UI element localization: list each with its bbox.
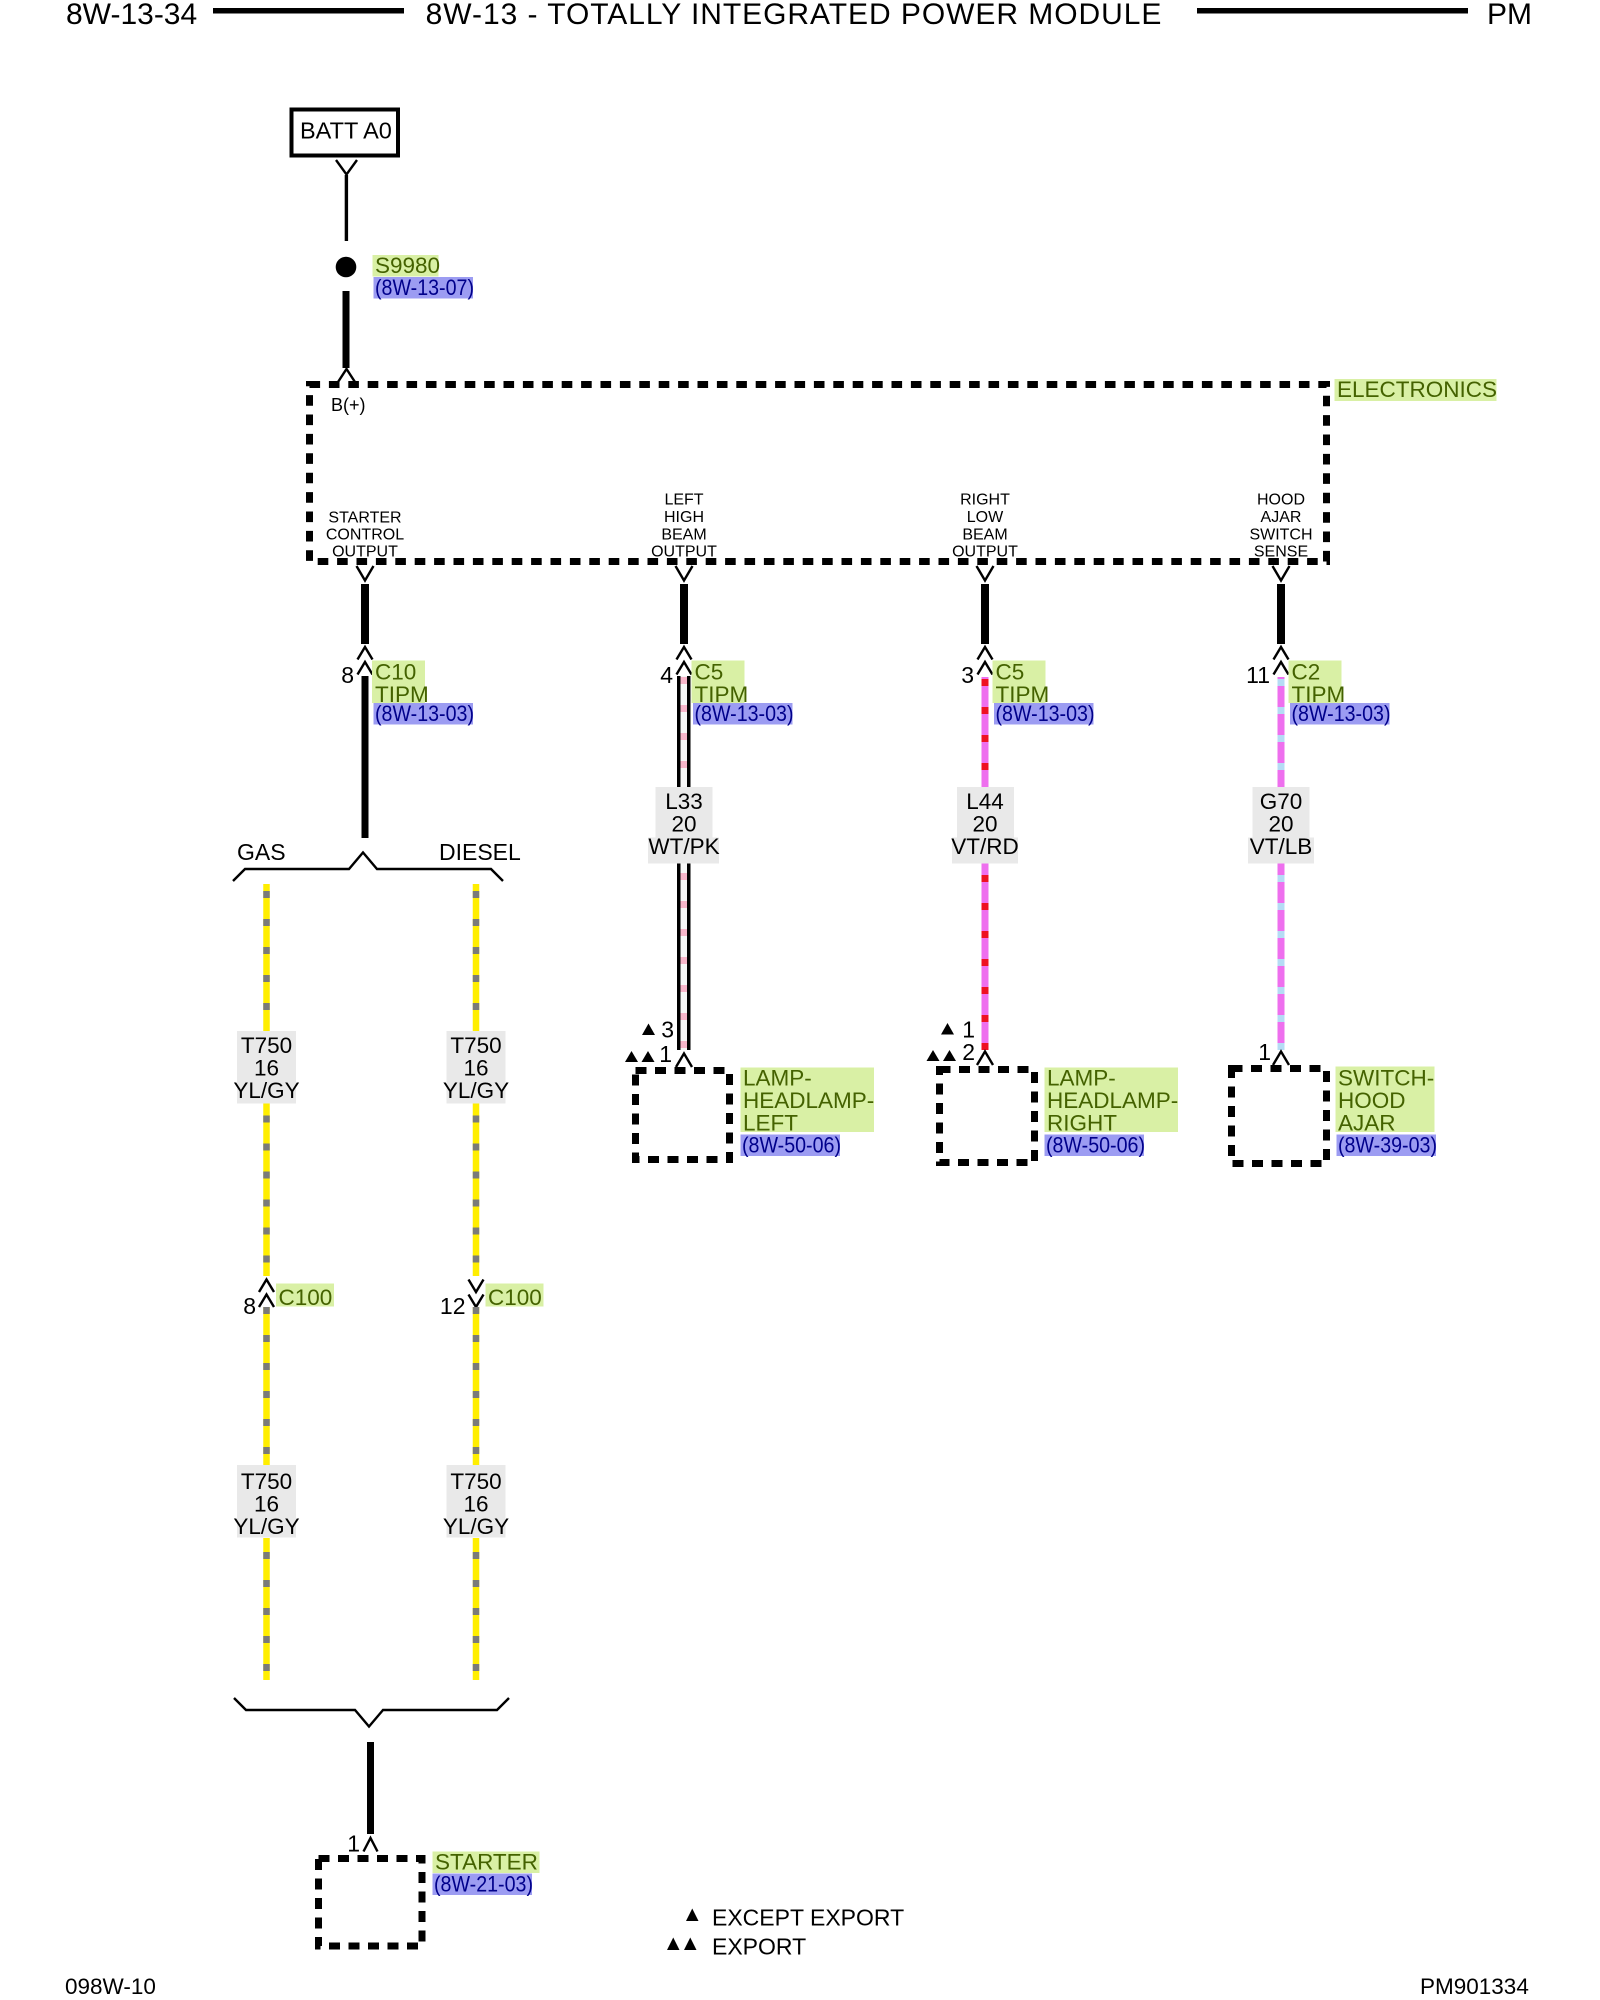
connector arrow below BATT A0: [336, 160, 357, 175]
svg-text:T750: T750: [450, 1033, 501, 1058]
svg-text:ELECTRONICS: ELECTRONICS: [1337, 377, 1497, 402]
label T750 16 YL/GY gas lower: [237, 1465, 296, 1538]
label C2 TIPM: [1289, 661, 1342, 704]
svg-text:OUTPUT: OUTPUT: [952, 544, 1018, 561]
legend export triangles: [667, 1938, 680, 1951]
wire L33 WT/PK white core: [681, 676, 688, 1050]
connector arrow hood ajar switch: [1273, 1052, 1289, 1066]
battery feed box BATT A0: [292, 110, 399, 156]
svg-text:T750: T750: [241, 1033, 292, 1058]
svg-text:HOOD: HOOD: [1257, 492, 1305, 509]
wire C100 diesel to lower label: [473, 1307, 480, 1465]
label C100 gas: [276, 1284, 334, 1307]
svg-text:(8W-13-03): (8W-13-03): [695, 701, 794, 726]
svg-text:SWITCH-: SWITCH-: [1338, 1066, 1434, 1091]
svg-text:(8W-13-07): (8W-13-07): [375, 275, 474, 300]
svg-text:VT/RD: VT/RD: [951, 834, 1019, 859]
svg-text:16: 16: [254, 1056, 279, 1081]
svg-text:8: 8: [341, 662, 354, 688]
svg-text:C10: C10: [375, 660, 416, 685]
label T750 16 YL/GY diesel upper: [447, 1031, 506, 1104]
wire C100 gas to lower label: [263, 1307, 270, 1465]
output arrow STARTER CONTROL: [357, 566, 374, 581]
svg-text:16: 16: [463, 1056, 488, 1081]
wire G70 VT/LB violet base: [1278, 677, 1285, 1050]
split brace gas/diesel: [233, 853, 503, 882]
svg-text:8: 8: [243, 1293, 256, 1319]
label (8W-13-03) C2: [1290, 703, 1390, 725]
svg-text:PM901334: PM901334: [1420, 1974, 1529, 1999]
svg-text:(8W-13-03): (8W-13-03): [1292, 701, 1391, 726]
svg-text:1: 1: [347, 1831, 360, 1857]
svg-text:LEFT: LEFT: [664, 492, 703, 509]
svg-text:(8W-39-03): (8W-39-03): [1338, 1133, 1437, 1158]
svg-text:WT/PK: WT/PK: [648, 834, 719, 859]
label (8W-50-06) lamp right: [1045, 1135, 1145, 1157]
svg-text:GAS: GAS: [237, 839, 286, 865]
svg-text:STARTER: STARTER: [328, 510, 401, 527]
connector C5 right double chevron: [978, 647, 993, 660]
splice S9980: [336, 257, 357, 278]
svg-text:3: 3: [961, 662, 974, 688]
label STARTER: [433, 1852, 540, 1874]
svg-text:C100: C100: [279, 1285, 333, 1310]
connector arrow starter pin 1: [364, 1838, 378, 1852]
svg-text:BEAM: BEAM: [661, 527, 706, 544]
header left rule: [213, 8, 404, 14]
label S9980: [373, 255, 439, 277]
svg-text:16: 16: [254, 1492, 279, 1517]
svg-text:098W-10: 098W-10: [65, 1974, 156, 1999]
label (8W-13-03) C10: [374, 703, 474, 725]
header right rule: [1197, 8, 1468, 14]
svg-text:2: 2: [962, 1039, 975, 1065]
svg-text:C2: C2: [1292, 660, 1321, 685]
label ELECTRONICS: [1335, 379, 1497, 401]
svg-text:16: 16: [463, 1492, 488, 1517]
component box LAMP-HEADLAMP-RIGHT (dashed): [940, 1070, 1035, 1163]
svg-text:8W-13 - TOTALLY INTEGRATED POW: 8W-13 - TOTALLY INTEGRATED POWER MODULE: [426, 0, 1163, 31]
svg-text:(8W-50-06): (8W-50-06): [742, 1133, 841, 1158]
wire module to C10: [361, 584, 369, 644]
svg-text:11: 11: [1246, 662, 1270, 688]
wire T750 diesel upper: [473, 884, 480, 1031]
svg-text:L33: L33: [665, 789, 703, 814]
svg-text:20: 20: [1268, 812, 1293, 837]
svg-text:(8W-50-06): (8W-50-06): [1046, 1133, 1145, 1158]
wire merge to starter: [367, 1742, 374, 1834]
pin 2 lamp right (export): [927, 1050, 940, 1061]
wire splice to TIPM B(+): [343, 291, 350, 368]
label C5 TIPM left: [692, 661, 745, 704]
label (8W-50-06) lamp left: [741, 1135, 841, 1157]
svg-text:C100: C100: [488, 1285, 542, 1310]
svg-text:T750: T750: [241, 1469, 292, 1494]
svg-text:(8W-13-03): (8W-13-03): [375, 701, 474, 726]
wire BATT A0 to splice: [345, 175, 348, 241]
pin 3 lamp left (except export): [642, 1024, 655, 1036]
label LAMP-HEADLAMP-LEFT: [741, 1068, 875, 1133]
label (8W-39-03): [1337, 1135, 1437, 1157]
output arrow RIGHT LOW BEAM: [977, 566, 994, 581]
label (8W-13-03) C5 left: [693, 703, 793, 725]
wire L33 WT/PK pink tracer dashes: [681, 676, 688, 1050]
svg-text:RIGHT: RIGHT: [960, 492, 1010, 509]
svg-text:YL/GY: YL/GY: [233, 1078, 299, 1103]
svg-text:(8W-13-03): (8W-13-03): [996, 701, 1095, 726]
pin 1 lamp right (except export): [941, 1023, 954, 1035]
svg-text:SENSE: SENSE: [1254, 544, 1308, 561]
svg-text:L44: L44: [966, 789, 1004, 814]
svg-text:8W-13-34: 8W-13-34: [66, 0, 197, 31]
connector arrow lamp right: [977, 1052, 993, 1066]
label (8W-13-03) C5 right: [994, 703, 1094, 725]
label C5 TIPM right: [993, 661, 1046, 704]
label G70 20 VT/LB: [1253, 787, 1310, 838]
svg-text:20: 20: [671, 812, 696, 837]
svg-text:20: 20: [972, 812, 997, 837]
svg-text:EXPORT: EXPORT: [712, 1934, 806, 1960]
wire L33 WT/PK outer black sheath: [677, 676, 691, 1050]
wire diesel lower to merge: [473, 1538, 480, 1680]
label C100 diesel: [486, 1284, 544, 1307]
svg-text:1: 1: [1258, 1039, 1271, 1065]
svg-text:4: 4: [660, 662, 673, 688]
legend except export triangle: [686, 1909, 699, 1922]
component box SWITCH-HOOD AJAR (dashed): [1232, 1069, 1327, 1164]
wire L44 VT/RD violet base: [982, 677, 989, 1050]
svg-text:C5: C5: [695, 660, 724, 685]
wire gas lower to merge: [263, 1538, 270, 1680]
wire module to C5 right: [981, 584, 989, 644]
label L33 20 WT/PK: [656, 787, 713, 838]
svg-text:BATT A0: BATT A0: [300, 118, 392, 144]
svg-text:AJAR: AJAR: [1261, 509, 1302, 526]
wire module to C5 left: [680, 584, 688, 644]
svg-text:VT/LB: VT/LB: [1250, 834, 1313, 859]
svg-text:OUTPUT: OUTPUT: [332, 544, 398, 561]
label T750 16 YL/GY diesel lower: [447, 1465, 506, 1538]
label (8W-21-03): [433, 1874, 533, 1896]
wire gas label to C100: [263, 1104, 270, 1277]
svg-text:(8W-21-03): (8W-21-03): [434, 1872, 533, 1897]
label LAMP-HEADLAMP-RIGHT: [1045, 1068, 1179, 1133]
svg-text:YL/GY: YL/GY: [443, 1514, 509, 1539]
label C10 TIPM: [372, 661, 425, 704]
output arrow LEFT HIGH BEAM: [676, 566, 693, 581]
label (8W-13-07): [374, 277, 474, 299]
svg-text:DIESEL: DIESEL: [439, 839, 521, 865]
svg-text:BEAM: BEAM: [962, 527, 1007, 544]
svg-text:HIGH: HIGH: [664, 509, 704, 526]
svg-text:HEADLAMP-: HEADLAMP-: [1047, 1088, 1178, 1113]
pin arrow B(+) into module: [338, 369, 355, 382]
output arrow HOOD AJAR: [1273, 566, 1290, 581]
svg-text:LOW: LOW: [967, 509, 1004, 526]
svg-text:3: 3: [661, 1017, 674, 1043]
wire module to C2: [1277, 584, 1285, 644]
wire T750 gas upper (YL with GY tracer): [263, 884, 270, 1031]
wire diesel label to C100: [473, 1104, 480, 1277]
component box STARTER (dashed): [319, 1859, 423, 1947]
connector C2 double chevron: [1274, 647, 1289, 660]
svg-text:EXCEPT EXPORT: EXCEPT EXPORT: [712, 1905, 904, 1931]
svg-text:G70: G70: [1260, 789, 1303, 814]
connector C5 left double chevron: [677, 647, 692, 660]
svg-text:1: 1: [659, 1041, 672, 1067]
svg-text:12: 12: [440, 1293, 466, 1319]
svg-text:LAMP-: LAMP-: [743, 1066, 812, 1091]
connector C100 gas double chevron up: [259, 1280, 274, 1293]
svg-text:LAMP-: LAMP-: [1047, 1066, 1116, 1091]
connector arrow lamp left: [676, 1054, 692, 1068]
svg-text:PM: PM: [1487, 0, 1532, 31]
svg-text:B(+): B(+): [331, 395, 366, 415]
label L44 20 VT/RD: [957, 787, 1014, 838]
connector C10 double chevron: [358, 647, 373, 660]
svg-text:T750: T750: [450, 1469, 501, 1494]
svg-text:OUTPUT: OUTPUT: [651, 544, 717, 561]
component box LAMP-HEADLAMP-LEFT (dashed): [636, 1071, 730, 1160]
svg-text:SWITCH: SWITCH: [1249, 527, 1312, 544]
TIPM ELECTRONICS module dashed box: [310, 385, 1327, 562]
svg-text:HOOD: HOOD: [1338, 1088, 1406, 1113]
label T750 16 YL/GY gas upper: [237, 1031, 296, 1104]
label SWITCH-HOOD AJAR: [1336, 1067, 1435, 1133]
wire C10 to gas/diesel split: [362, 676, 369, 838]
svg-text:C5: C5: [996, 660, 1025, 685]
svg-text:CONTROL: CONTROL: [326, 527, 404, 544]
wire G70 VT/LB light blue tracer dashes: [1278, 677, 1285, 1050]
connector C100 diesel double chevron down: [469, 1280, 484, 1293]
merge brace gas/diesel: [234, 1698, 509, 1727]
svg-text:YL/GY: YL/GY: [233, 1514, 299, 1539]
svg-text:YL/GY: YL/GY: [443, 1078, 509, 1103]
svg-text:HEADLAMP-: HEADLAMP-: [743, 1088, 874, 1113]
pin 1 lamp left (export): [625, 1051, 638, 1062]
wire L44 VT/RD red tracer dashes: [982, 677, 989, 1050]
